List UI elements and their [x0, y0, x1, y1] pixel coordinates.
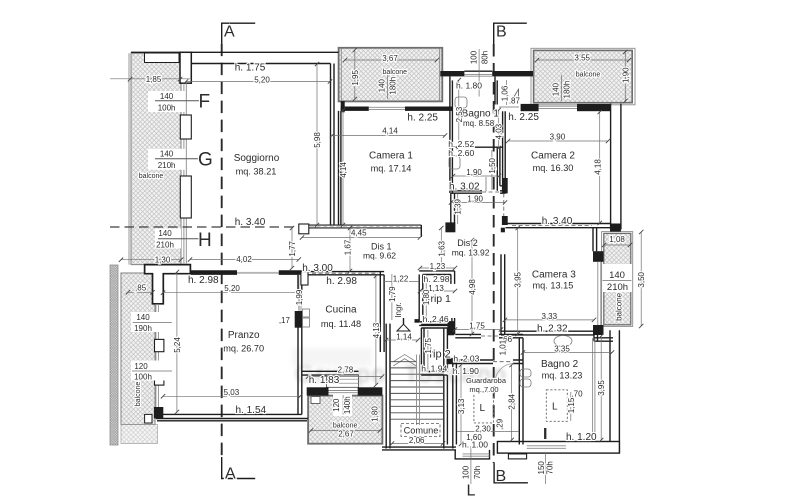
svg-text:1,85: 1,85 — [146, 75, 162, 84]
svg-text:120: 120 — [134, 362, 148, 371]
svg-text:100: 100 — [470, 50, 479, 64]
svg-text:3,90: 3,90 — [550, 133, 566, 142]
svg-text:h. 3.02: h. 3.02 — [449, 182, 480, 193]
svg-text:70h: 70h — [473, 466, 482, 479]
svg-text:1,80: 1,80 — [422, 289, 431, 305]
svg-text:1,23: 1,23 — [430, 262, 446, 271]
svg-text:Guardaroba: Guardaroba — [466, 376, 507, 385]
svg-text:1,90: 1,90 — [467, 195, 483, 204]
svg-text:5,98: 5,98 — [313, 132, 322, 148]
svg-text:100: 100 — [462, 465, 471, 479]
svg-text:210h: 210h — [158, 161, 176, 170]
svg-text:140: 140 — [158, 229, 172, 238]
svg-text:balcone: balcone — [615, 292, 624, 321]
svg-text:4,14: 4,14 — [339, 162, 348, 178]
svg-text:2,67: 2,67 — [338, 430, 354, 439]
svg-text:180h: 180h — [389, 77, 398, 95]
svg-text:h. 1.75: h. 1.75 — [235, 63, 266, 74]
svg-text:1,95: 1,95 — [351, 70, 360, 86]
svg-text:Soggiorno: Soggiorno — [234, 153, 280, 164]
svg-text:Ingr.: Ingr. — [394, 302, 403, 318]
svg-text:h. 2.25: h. 2.25 — [508, 112, 539, 123]
svg-text:.87: .87 — [509, 97, 521, 106]
svg-text:1,90: 1,90 — [621, 67, 630, 83]
svg-text:H: H — [198, 230, 212, 251]
svg-text:1,80: 1,80 — [371, 406, 380, 422]
svg-text:4,45: 4,45 — [351, 229, 367, 238]
svg-text:70h: 70h — [545, 461, 554, 474]
svg-text:1,22: 1,22 — [393, 275, 409, 284]
svg-text:B: B — [496, 24, 507, 41]
svg-text:3,35: 3,35 — [554, 344, 570, 353]
svg-text:140: 140 — [160, 92, 174, 101]
svg-text:mq. 17.14: mq. 17.14 — [371, 164, 412, 174]
svg-text:Camera 1: Camera 1 — [369, 151, 413, 162]
svg-text:80h: 80h — [481, 51, 490, 64]
svg-text:2,53: 2,53 — [455, 106, 464, 122]
svg-text:4,03: 4,03 — [495, 123, 504, 139]
svg-text:Bagno 2: Bagno 2 — [541, 359, 579, 370]
svg-text:h. 1.80: h. 1.80 — [456, 80, 482, 90]
svg-text:h. 2.03: h. 2.03 — [453, 353, 479, 363]
svg-text:3,50: 3,50 — [637, 271, 646, 287]
svg-text:Camera 2: Camera 2 — [531, 151, 575, 162]
svg-text:Pranzo: Pranzo — [228, 330, 260, 341]
svg-text:mq. 11.48: mq. 11.48 — [321, 319, 361, 329]
svg-text:1,90: 1,90 — [466, 168, 482, 177]
svg-text:5,24: 5,24 — [173, 337, 182, 353]
svg-text:F: F — [199, 92, 211, 113]
svg-text:1,77: 1,77 — [288, 240, 297, 256]
svg-text:1,67: 1,67 — [344, 239, 353, 255]
svg-text:3,33: 3,33 — [542, 312, 558, 321]
svg-text:1,01: 1,01 — [499, 339, 508, 355]
svg-text:1,15: 1,15 — [567, 397, 576, 413]
svg-text:h. 2.25: h. 2.25 — [407, 113, 438, 124]
svg-text:1,99: 1,99 — [295, 289, 304, 305]
svg-text:balcone: balcone — [383, 69, 408, 76]
svg-text:,70: ,70 — [571, 390, 583, 399]
svg-text:h. 2.46: h. 2.46 — [423, 314, 449, 324]
svg-text:h. 1.90: h. 1.90 — [453, 366, 479, 376]
svg-text:Comune: Comune — [404, 426, 439, 436]
svg-text:L: L — [480, 403, 486, 414]
svg-text:5,20: 5,20 — [254, 75, 270, 84]
svg-text:140: 140 — [609, 270, 625, 281]
svg-text:rip 1: rip 1 — [430, 293, 451, 305]
svg-text:balcone: balcone — [576, 72, 601, 79]
svg-text:h. 2.32: h. 2.32 — [537, 324, 568, 335]
svg-text:4,13: 4,13 — [372, 322, 381, 338]
svg-text:mq. 16.30: mq. 16.30 — [533, 163, 574, 173]
svg-text:1,39: 1,39 — [454, 198, 463, 214]
svg-text:4,14: 4,14 — [382, 127, 398, 136]
svg-text:I: I — [543, 426, 547, 443]
svg-text:140: 140 — [551, 82, 560, 96]
svg-text:mq. 13.92: mq. 13.92 — [452, 247, 490, 257]
svg-text:4,02: 4,02 — [236, 255, 252, 264]
svg-text:140h: 140h — [343, 396, 352, 414]
svg-text:,85: ,85 — [135, 284, 147, 293]
svg-text:h. 1.83: h. 1.83 — [309, 375, 340, 386]
svg-text:h. 2.98: h. 2.98 — [326, 276, 357, 287]
svg-text:L: L — [552, 402, 558, 413]
svg-text:1,75: 1,75 — [424, 337, 433, 353]
svg-text:100h: 100h — [134, 372, 152, 381]
svg-text:h. 1.20: h. 1.20 — [566, 432, 597, 443]
svg-text:1,50: 1,50 — [488, 157, 497, 173]
svg-text:mq. 9.62: mq. 9.62 — [363, 250, 396, 260]
svg-text:4,18: 4,18 — [594, 159, 603, 175]
svg-text:h. 1.00: h. 1.00 — [462, 440, 488, 450]
svg-text:4,98: 4,98 — [468, 279, 477, 295]
svg-text:3,55: 3,55 — [574, 54, 590, 63]
svg-text:140: 140 — [160, 150, 174, 159]
svg-text:100h: 100h — [158, 104, 176, 113]
svg-text:210h: 210h — [156, 241, 174, 250]
svg-text:h. 3.00: h. 3.00 — [302, 263, 333, 274]
svg-text:h. 2.60: h. 2.60 — [448, 148, 474, 158]
svg-text:h. 1.54: h. 1.54 — [236, 405, 267, 416]
svg-text:L: L — [467, 483, 476, 498]
svg-text:Cucina: Cucina — [325, 305, 357, 316]
svg-text:mq. 38.21: mq. 38.21 — [236, 167, 277, 177]
svg-text:3,67: 3,67 — [382, 54, 398, 63]
svg-text:A: A — [225, 466, 236, 483]
svg-text:h. 2.98: h. 2.98 — [424, 274, 450, 284]
svg-text:balcone: balcone — [333, 422, 358, 429]
svg-text:A: A — [224, 24, 235, 41]
svg-text:1,08: 1,08 — [609, 235, 625, 244]
svg-text:210h: 210h — [607, 282, 628, 293]
svg-text:190h: 190h — [134, 324, 152, 333]
svg-text:2,78: 2,78 — [338, 366, 354, 375]
svg-text:h. 2.98: h. 2.98 — [188, 275, 219, 286]
svg-text:balcone: balcone — [139, 173, 164, 180]
svg-text:1,14: 1,14 — [396, 333, 412, 342]
svg-text:140: 140 — [378, 78, 387, 92]
svg-text:1,30: 1,30 — [155, 255, 171, 264]
svg-text:Camera 3: Camera 3 — [532, 270, 576, 281]
svg-text:180h: 180h — [562, 81, 571, 99]
svg-text:mq. 13.15: mq. 13.15 — [532, 281, 573, 291]
svg-text:,17: ,17 — [279, 316, 291, 325]
svg-text:2,06: 2,06 — [409, 436, 425, 445]
svg-text:h. 1.94: h. 1.94 — [421, 364, 447, 374]
svg-text:1,79: 1,79 — [388, 286, 397, 302]
svg-text:G: G — [198, 150, 213, 171]
svg-text:B: B — [496, 468, 507, 485]
svg-text:3,95: 3,95 — [514, 271, 523, 287]
svg-text:2,84: 2,84 — [508, 393, 517, 409]
svg-text:mq. 26.70: mq. 26.70 — [223, 344, 264, 354]
svg-text:mq. 7.00: mq. 7.00 — [469, 385, 498, 394]
svg-text:1,63: 1,63 — [437, 240, 446, 256]
svg-text:120: 120 — [332, 398, 341, 412]
svg-text:1,06: 1,06 — [501, 85, 510, 101]
svg-text:mq. 8.58: mq. 8.58 — [463, 119, 495, 128]
svg-text:mq. 13.23: mq. 13.23 — [542, 370, 583, 380]
svg-text:3,13: 3,13 — [457, 398, 466, 414]
svg-text:5,20: 5,20 — [224, 284, 240, 293]
svg-text:3,95: 3,95 — [597, 380, 606, 396]
svg-text:balcone: balcone — [135, 382, 142, 407]
svg-text:h. 3.40: h. 3.40 — [542, 216, 573, 227]
svg-text:1,75: 1,75 — [469, 322, 485, 331]
svg-text:,29: ,29 — [496, 418, 505, 430]
svg-text:140: 140 — [136, 313, 150, 322]
svg-text:5,03: 5,03 — [224, 388, 240, 397]
